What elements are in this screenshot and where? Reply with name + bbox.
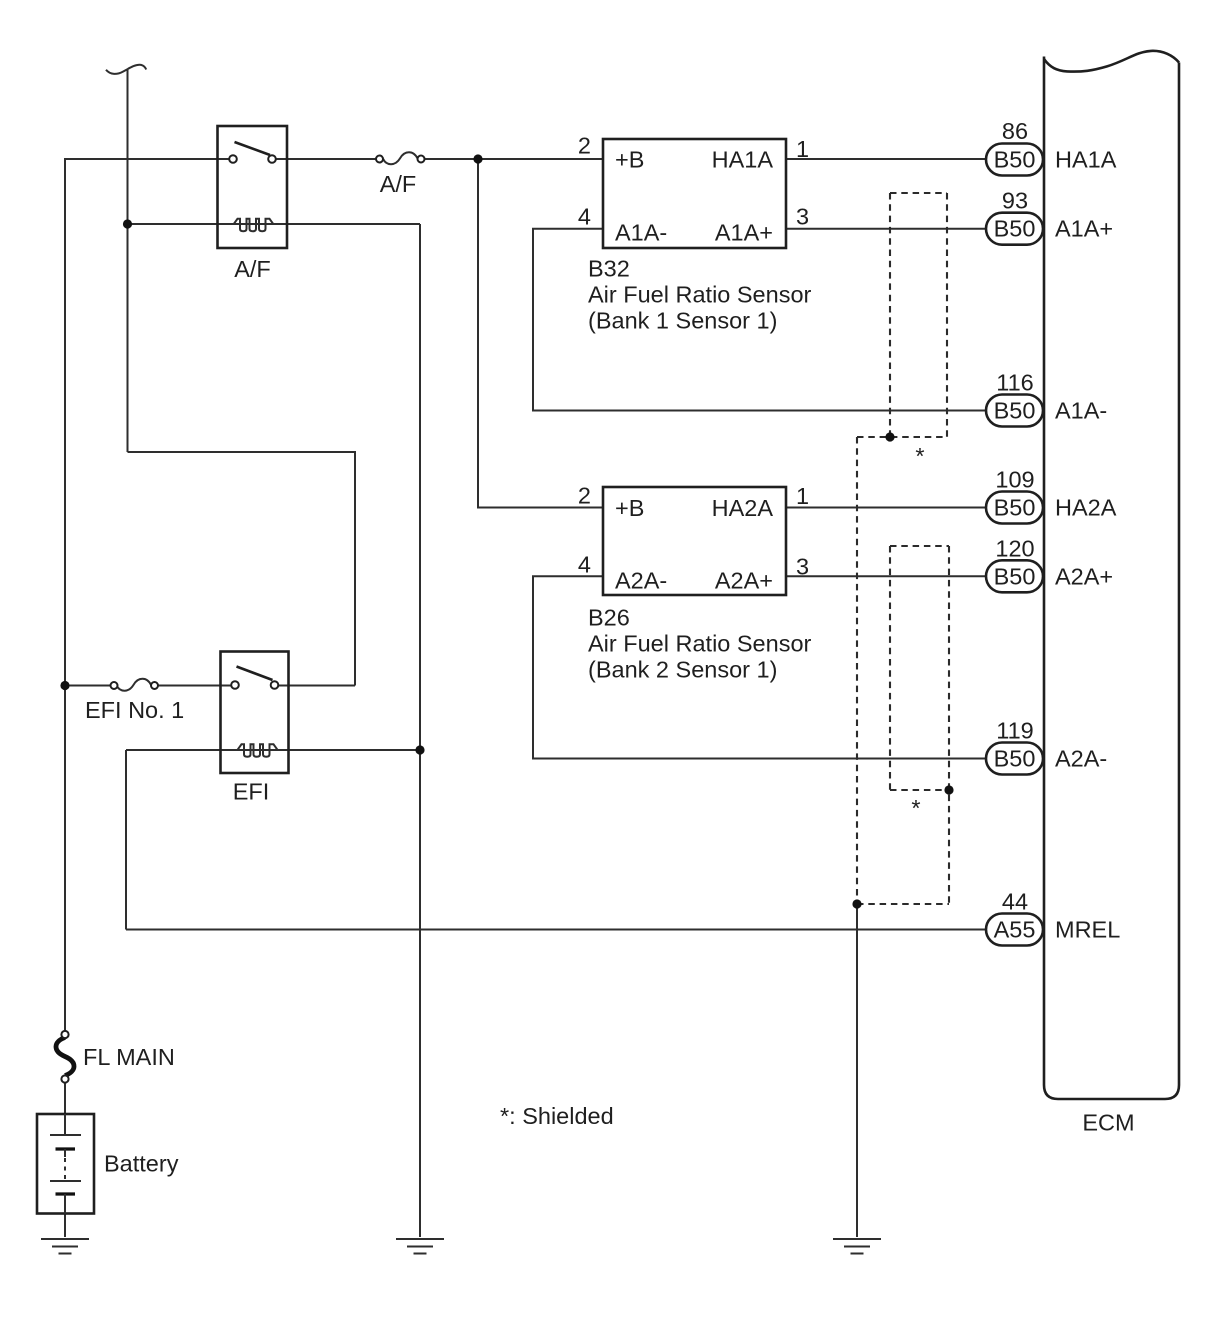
junction: shield drain to ground node <box>852 899 861 908</box>
svg-text:3: 3 <box>796 204 809 230</box>
relay A/F <box>218 126 288 248</box>
junction: fuse A/F output node <box>473 154 482 163</box>
wire: EFI relay coil row <box>126 749 420 751</box>
fusible link FL MAIN <box>56 1031 74 1083</box>
svg-text:93: 93 <box>1002 188 1028 214</box>
junction: shield2 drain node <box>944 785 953 794</box>
wire: EFI coil left down to MREL row <box>125 750 127 930</box>
wire: row1 from bus to A/F relay switch <box>64 158 230 160</box>
wire: A/F relay switch to fuse A/F <box>275 158 377 160</box>
svg-text:*: * <box>915 443 924 469</box>
wire: MREL row to ECM A55 <box>126 929 990 931</box>
svg-text:*: Shielded: *: Shielded <box>500 1103 614 1129</box>
ground (relay bus) <box>396 1239 444 1254</box>
svg-text:44: 44 <box>1002 889 1028 915</box>
wire: left battery bus vertical x=65 <box>64 159 66 1031</box>
svg-text:B50: B50 <box>994 746 1036 772</box>
wire: A/F relay coil row <box>128 223 421 225</box>
svg-text:HA2A: HA2A <box>712 495 774 521</box>
wire: battery negative to ground <box>64 1213 66 1237</box>
connector B50 pin 109 HA2A <box>986 467 1117 524</box>
wire: ignition feed down from break symbol <box>127 70 129 453</box>
wire: EFI relay switch right to x=355 <box>278 685 355 687</box>
svg-text:MREL: MREL <box>1055 917 1120 943</box>
svg-text:Battery: Battery <box>104 1151 179 1177</box>
svg-text:2: 2 <box>578 133 591 159</box>
svg-text:4: 4 <box>578 204 591 230</box>
fuse A/F <box>376 152 425 164</box>
svg-text:A1A-: A1A- <box>615 220 667 246</box>
svg-text:EFI No. 1: EFI No. 1 <box>85 697 184 723</box>
wire: B26 pin4 A2A- loop to ECM <box>533 576 990 758</box>
wire: fuse EFI No.1 to EFI relay switch <box>158 685 232 687</box>
svg-text:2: 2 <box>578 483 591 509</box>
svg-text:86: 86 <box>1002 118 1028 144</box>
svg-text:EFI: EFI <box>233 779 270 805</box>
fuse EFI No. 1 <box>111 679 159 691</box>
svg-text:ECM: ECM <box>1082 1110 1134 1136</box>
svg-text:A1A-: A1A- <box>1055 398 1107 424</box>
wire: B26 pin3 A2A+ to ECM <box>786 575 990 577</box>
connector B50 pin 93 A1A+ <box>986 188 1113 245</box>
ground (shield drain) <box>833 1239 881 1254</box>
svg-text:4: 4 <box>578 552 591 578</box>
svg-text:119: 119 <box>996 718 1033 744</box>
svg-text:B50: B50 <box>994 563 1036 589</box>
svg-text:1: 1 <box>796 136 809 162</box>
connector B50 pin 119 A2A- <box>986 718 1107 775</box>
svg-text:A2A-: A2A- <box>1055 746 1107 772</box>
svg-text:+B: +B <box>615 147 644 173</box>
connector A55 pin 44 MREL <box>986 889 1120 946</box>
wire: junction x=478 down to B26 pin2 <box>478 159 603 508</box>
svg-text:A1A+: A1A+ <box>1055 216 1113 242</box>
svg-text:109: 109 <box>995 467 1034 493</box>
wire: shield drain solid to ground <box>856 904 858 1237</box>
connector B50 pin 86 HA1A <box>986 118 1117 176</box>
sensor B26 box <box>603 487 786 595</box>
svg-text:1: 1 <box>796 483 809 509</box>
ground (battery) <box>41 1239 89 1254</box>
svg-text:A2A+: A2A+ <box>715 568 773 594</box>
svg-text:B50: B50 <box>994 147 1036 173</box>
svg-text:120: 120 <box>995 535 1034 561</box>
svg-text:(Bank 1 Sensor 1): (Bank 1 Sensor 1) <box>588 308 777 334</box>
shield dashed box 1 (Bank1 sensor wires) <box>857 193 947 437</box>
wire: B32 pin3 A1A+ to ECM <box>786 228 990 230</box>
svg-text:HA1A: HA1A <box>1055 147 1117 173</box>
svg-text:(Bank 2 Sensor 1): (Bank 2 Sensor 1) <box>588 657 777 683</box>
svg-text:A/F: A/F <box>234 256 271 282</box>
svg-text:A55: A55 <box>994 917 1036 943</box>
wire: vertical x=420 to ground <box>419 224 421 1237</box>
wire: B32 pin4 A1A- loop to ECM <box>533 229 990 411</box>
svg-text:116: 116 <box>996 370 1033 396</box>
wire: FL MAIN to battery <box>64 1083 66 1136</box>
junction: shield1 drain node <box>885 432 894 441</box>
svg-text:B50: B50 <box>994 495 1036 521</box>
wire: B26 pin1 HA2A to ECM <box>786 507 990 509</box>
connector B50 pin 120 A2A+ <box>986 535 1113 592</box>
break symbol (ignition feed continuation) <box>106 65 146 74</box>
battery <box>37 1114 94 1214</box>
svg-text:B50: B50 <box>994 216 1036 242</box>
shield drain dashed vertical <box>856 437 858 904</box>
wire: EFI row from bus to fuse EFI No.1 <box>64 685 111 687</box>
svg-text:A2A+: A2A+ <box>1055 563 1113 589</box>
svg-text:HA1A: HA1A <box>712 147 774 173</box>
svg-text:*: * <box>911 795 920 821</box>
junction: EFI coil / ground bus node <box>415 745 424 754</box>
svg-text:Air Fuel Ratio Sensor: Air Fuel Ratio Sensor <box>588 282 812 308</box>
svg-text:HA2A: HA2A <box>1055 495 1117 521</box>
svg-text:3: 3 <box>796 554 809 580</box>
svg-text:A1A+: A1A+ <box>715 220 773 246</box>
svg-text:A/F: A/F <box>380 171 417 197</box>
junction: battery bus / EFI fuse node <box>60 681 69 690</box>
svg-text:B32: B32 <box>588 256 630 282</box>
svg-text:B50: B50 <box>994 398 1036 424</box>
relay EFI <box>221 652 289 774</box>
ECM outline <box>1044 57 1179 1100</box>
wire: B32 pin1 HA1A to ECM <box>786 158 990 160</box>
wire: fuse A/F to B32 pin2 through junction <box>424 158 603 160</box>
svg-text:FL MAIN: FL MAIN <box>83 1044 175 1070</box>
shield dashed box 2 (Bank2 sensor wires) <box>857 546 949 904</box>
svg-text:Air Fuel Ratio Sensor: Air Fuel Ratio Sensor <box>588 631 812 657</box>
junction: A/F coil / ignition node <box>123 219 132 228</box>
connector B50 pin 116 A1A- <box>986 370 1107 427</box>
wire: L-route to EFI relay switch <box>128 452 356 686</box>
svg-text:B26: B26 <box>588 605 630 631</box>
sensor B32 box <box>603 139 786 248</box>
svg-text:+B: +B <box>615 495 644 521</box>
svg-text:A2A-: A2A- <box>615 568 667 594</box>
